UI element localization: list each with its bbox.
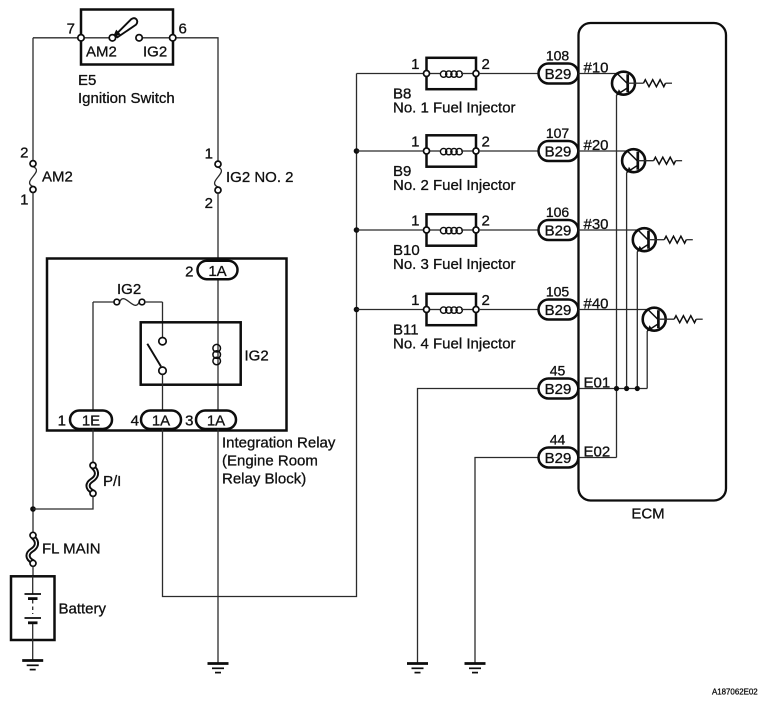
svg-text:B29: B29 <box>545 143 572 160</box>
connector B29 pin 107 <box>539 141 579 161</box>
switch lever <box>113 18 138 38</box>
injector B10 pin2 circle <box>473 227 479 233</box>
wire: bus to injector B11 pin1 <box>357 309 424 311</box>
svg-text:B29: B29 <box>545 381 572 398</box>
svg-text:1A: 1A <box>207 413 225 430</box>
svg-text:1: 1 <box>411 56 419 73</box>
integration relay outer box <box>47 259 287 431</box>
wire: bus to injector B8 pin1 <box>357 73 424 75</box>
ground (E02) <box>465 664 486 673</box>
emitter of Q3 <box>637 244 648 251</box>
svg-text:ECM: ECM <box>631 506 664 523</box>
resistor R4 <box>658 316 702 323</box>
battery box <box>11 576 55 640</box>
resistor R3 <box>649 236 693 243</box>
svg-text:1A: 1A <box>152 413 170 430</box>
svg-text:No. 3 Fuel Injector: No. 3 Fuel Injector <box>393 256 516 273</box>
svg-text:1: 1 <box>205 145 213 162</box>
svg-text:E01: E01 <box>584 375 611 392</box>
svg-text:(Engine Room: (Engine Room <box>222 453 318 470</box>
wire: FL MAIN to battery <box>32 566 34 577</box>
svg-text:No. 2 Fuel Injector: No. 2 Fuel Injector <box>393 177 516 194</box>
injector B8 pin2 circle <box>473 71 479 77</box>
svg-text:2: 2 <box>482 56 490 73</box>
wire: terminal7 down to AM2 fuse <box>32 38 34 161</box>
injector B9 pin1 circle <box>424 148 430 154</box>
wire: E01 to ground <box>418 389 539 664</box>
wire: Q1 emitter to E01/E02 <box>616 95 618 458</box>
AM2 contact circle <box>109 35 115 41</box>
injector B11 pin2 circle <box>473 307 479 313</box>
svg-text:1: 1 <box>58 413 66 430</box>
svg-text:Relay Block): Relay Block) <box>222 471 306 488</box>
wire: P/I to left main line <box>33 496 93 509</box>
svg-text:B29: B29 <box>545 222 572 239</box>
relay switch <box>147 338 166 375</box>
svg-text:IG2: IG2 <box>143 44 167 61</box>
injector B10 box <box>427 214 477 245</box>
relay coil IG2 <box>213 344 221 364</box>
svg-text:2: 2 <box>185 264 193 281</box>
injector B11 box <box>427 294 477 325</box>
svg-text:7: 7 <box>67 21 75 38</box>
injector B8 coil <box>430 71 474 77</box>
wire: E02 inside ECM <box>578 457 616 459</box>
svg-text:4: 4 <box>131 413 139 430</box>
svg-text:44: 44 <box>550 432 566 448</box>
injector B11 pin1 circle <box>424 307 430 313</box>
injector B10 pin1 circle <box>424 227 430 233</box>
relay pin 3 oval 1A <box>185 411 236 430</box>
fuse IG2 (relay internal) <box>93 299 163 306</box>
node: E01 emitter dots <box>614 386 619 391</box>
svg-text:2: 2 <box>482 134 490 151</box>
injector B11 coil <box>430 307 474 313</box>
svg-text:108: 108 <box>546 48 570 64</box>
wire: node to terminal 7 <box>33 37 78 39</box>
injector B9 box <box>427 135 477 166</box>
resistor R1 <box>628 80 672 87</box>
fusible link FL MAIN <box>28 532 36 566</box>
svg-text:6: 6 <box>179 21 187 38</box>
connector B29 pin 108 <box>539 64 579 84</box>
svg-text:AM2: AM2 <box>42 169 73 186</box>
svg-text:No. 4 Fuel Injector: No. 4 Fuel Injector <box>393 336 516 353</box>
svg-text:105: 105 <box>546 284 570 300</box>
svg-text:No. 1 Fuel Injector: No. 1 Fuel Injector <box>393 100 516 117</box>
wire: terminal 6 to IG2 NO.2 line <box>176 38 218 162</box>
wire: pin 1E down to P/I <box>92 429 94 462</box>
wire: Q3 emitter to E01 <box>636 252 638 389</box>
terminal 6 circle <box>170 35 176 41</box>
svg-text:IG2: IG2 <box>117 281 141 298</box>
fusible link P/I <box>88 462 96 496</box>
wire: switch bottom contact to pin 4 <box>162 374 164 410</box>
wire: terminal 7 to AM2 contact <box>84 37 109 39</box>
wire: fuse to relay pin 2 <box>217 193 219 261</box>
svg-text:E5: E5 <box>78 72 96 89</box>
injector B9 pin2 circle <box>473 148 479 154</box>
wire: injector B11 pin2 to B29 <box>479 309 539 311</box>
wire: base wire #40 <box>578 309 648 311</box>
relay inner box <box>141 322 241 384</box>
svg-text:IG2 NO. 2: IG2 NO. 2 <box>226 169 294 186</box>
wire: injector B9 pin2 to B29 <box>479 150 539 152</box>
svg-text:1: 1 <box>20 192 28 209</box>
svg-text:1: 1 <box>411 134 419 151</box>
ground (E01) <box>407 664 428 673</box>
IG2 contact circle <box>136 35 142 41</box>
relay pin 4 oval 1A <box>131 411 181 430</box>
emitter of Q2 <box>627 165 638 172</box>
svg-text:1: 1 <box>411 292 419 309</box>
injector B8 pin1 circle <box>424 71 430 77</box>
node: P/I junction dot <box>30 506 36 512</box>
svg-text:2: 2 <box>482 292 490 309</box>
connector B29 pin 106 <box>539 220 579 240</box>
injector B8 box <box>427 58 477 89</box>
battery internals <box>25 576 42 640</box>
node: bus dot row3 <box>354 227 360 233</box>
wire: E01 inside ECM <box>578 388 647 390</box>
ECM box <box>579 23 727 501</box>
svg-text:AM2: AM2 <box>86 44 117 61</box>
wire: Q4 emitter to E01 <box>646 331 648 389</box>
svg-text:Battery: Battery <box>59 601 107 618</box>
wire: bus to injector B10 pin1 <box>357 229 424 231</box>
svg-text:B29: B29 <box>545 66 572 83</box>
svg-text:45: 45 <box>550 363 566 379</box>
wire: pin 3 to ground <box>217 429 219 664</box>
wire: base wire #10 <box>578 73 617 75</box>
ground (battery) <box>22 661 43 670</box>
svg-text:FL MAIN: FL MAIN <box>42 541 101 558</box>
svg-text:E02: E02 <box>584 444 611 461</box>
wire: IG2 fuse to switch top contact <box>162 302 164 338</box>
fuse IG2 NO.2 <box>215 161 222 193</box>
svg-text:Integration Relay: Integration Relay <box>222 435 336 452</box>
svg-text:Ignition Switch: Ignition Switch <box>78 90 175 107</box>
transistor Q1 <box>612 72 635 95</box>
connector B29 pin 105 <box>539 300 579 320</box>
svg-text:B29: B29 <box>545 302 572 319</box>
node: bus dot row4 <box>354 307 360 313</box>
connector B29 pin 45 E01 <box>539 379 579 399</box>
connector B29 pin 44 E02 <box>539 448 579 468</box>
relay pin 2 oval 1A <box>185 261 237 281</box>
transistor Q2 <box>622 149 645 172</box>
wire: E02 to ground <box>475 458 539 664</box>
wire: battery to ground <box>32 640 34 661</box>
svg-text:P/I: P/I <box>103 473 121 490</box>
wire: bus to injector B9 pin1 <box>357 150 424 152</box>
emitter of Q4 <box>647 324 658 331</box>
wire: base wire #30 <box>578 229 638 231</box>
svg-text:106: 106 <box>546 204 570 220</box>
svg-text:3: 3 <box>185 413 193 430</box>
wire: Q2 emitter to E01 <box>626 173 628 389</box>
injector B10 coil <box>430 227 474 233</box>
wire: IG2 contact to terminal 6 <box>142 37 169 39</box>
node: bus dot row2 <box>354 148 360 154</box>
wire: base wire #20 <box>578 150 627 152</box>
relay pin 1E oval <box>58 411 112 430</box>
wire: IG2 fuse left corner down to pin 1E <box>92 302 94 411</box>
fuse AM2 <box>30 161 37 193</box>
wire: pin 4 down, right, up the injector bus <box>163 74 357 597</box>
svg-text:B29: B29 <box>545 450 572 467</box>
transistor Q3 <box>633 228 656 251</box>
svg-text:107: 107 <box>546 125 570 141</box>
wire: relay pin2 oval to coil <box>217 279 219 410</box>
wire: injector B8 pin2 to B29 <box>479 73 539 75</box>
svg-text:2: 2 <box>482 213 490 230</box>
svg-text:2: 2 <box>205 195 213 212</box>
svg-text:IG2: IG2 <box>245 348 269 365</box>
svg-text:1E: 1E <box>82 413 100 430</box>
resistor R2 <box>638 157 682 164</box>
svg-text:1: 1 <box>411 213 419 230</box>
injector B9 coil <box>430 148 474 154</box>
transistor Q4 <box>643 308 666 331</box>
emitter of Q1 <box>617 88 628 95</box>
wire: injector B10 pin2 to B29 <box>479 229 539 231</box>
ground (relay coil) <box>208 664 229 673</box>
svg-text:A187062E02: A187062E02 <box>712 688 758 697</box>
wire: AM2 fuse to FL MAIN <box>32 193 34 533</box>
svg-text:2: 2 <box>20 145 28 162</box>
terminal 7 circle <box>78 35 84 41</box>
svg-text:1A: 1A <box>208 263 226 280</box>
ignition switch E5 box <box>81 10 173 65</box>
